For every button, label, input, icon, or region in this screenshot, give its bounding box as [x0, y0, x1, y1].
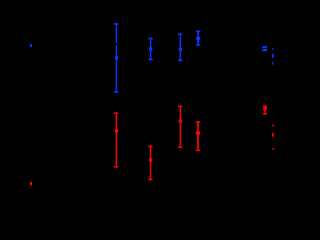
- red errorbar 4: [196, 121, 200, 151]
- red errorbar 1: [114, 112, 119, 167]
- blue errorbar 3: [178, 34, 183, 62]
- blue errorbar 2: [148, 38, 153, 61]
- blue errorbar 4: [196, 31, 200, 46]
- red errorbar 5 (short): [263, 106, 267, 115]
- blue point 0 marker: [30, 44, 32, 47]
- red point 0 marker: [30, 182, 32, 185]
- blue errorbar 1: [114, 23, 119, 92]
- red errorbar 6 (faint dotted): [272, 124, 274, 150]
- red errorbar 3: [178, 106, 183, 148]
- red errorbar 2: [148, 146, 153, 181]
- blue errorbar 6 (faint dotted): [272, 48, 274, 65]
- blue errorbar 5 (short): [262, 46, 267, 51]
